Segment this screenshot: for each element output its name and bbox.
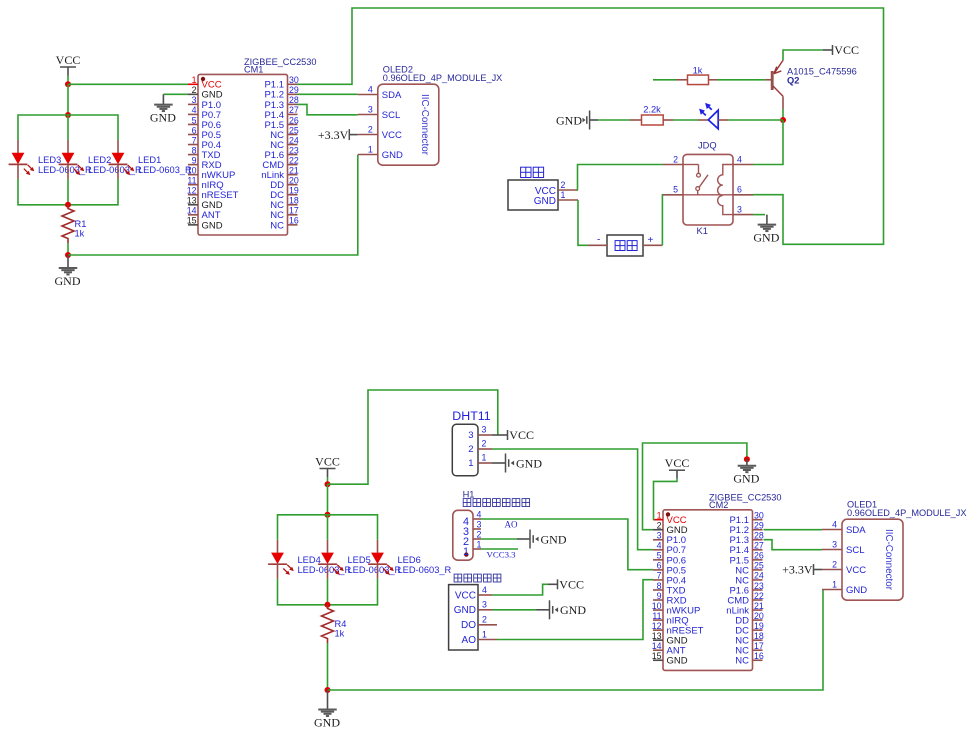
pin 12 nRESET	[188, 194, 198, 196]
relay switch contacts	[683, 165, 733, 195]
svg-text:GND: GND	[560, 603, 586, 617]
pin 19 DC	[753, 629, 763, 631]
svg-text:12: 12	[187, 186, 197, 196]
svg-text:8: 8	[192, 145, 197, 155]
resistor R4	[322, 605, 334, 643]
pin 28 P1.3	[288, 103, 298, 105]
wire relay pin3 to ground	[753, 214, 765, 216]
relay pin 4	[733, 164, 753, 166]
pin 3 P1.0	[653, 539, 663, 541]
led LED2	[59, 140, 85, 179]
pin 1 GND	[822, 589, 842, 591]
wire collector to relay pin4	[753, 120, 783, 165]
svg-text:21: 21	[289, 165, 299, 175]
pin 16 NC	[288, 224, 298, 226]
svg-text:1: 1	[561, 190, 566, 200]
svg-text:10: 10	[652, 601, 662, 611]
sensor rain body	[449, 585, 478, 650]
svg-text:4: 4	[477, 509, 482, 519]
svg-text:18: 18	[754, 631, 764, 641]
wire rain GND	[492, 609, 537, 611]
led LED4	[268, 540, 294, 579]
wire VCC node down to LED bus	[327, 484, 329, 515]
svg-text:6: 6	[737, 185, 742, 195]
svg-text:23: 23	[289, 145, 299, 155]
resistor 1k body	[688, 75, 709, 85]
pin 17 NC	[753, 649, 763, 651]
wire CM2 pin2 GND loop	[643, 443, 747, 530]
pin 8 TXD	[188, 154, 198, 156]
svg-text:+: +	[648, 235, 654, 246]
svg-text:7: 7	[192, 135, 197, 145]
svg-text:CM1: CM1	[244, 65, 263, 75]
svg-text:13: 13	[652, 631, 662, 641]
svg-text:2: 2	[468, 444, 473, 455]
pin 1 GND	[358, 154, 378, 156]
svg-text:CM2: CM2	[709, 500, 728, 510]
wire H1 pin4 (AO) to CM2 P0.5	[481, 519, 653, 570]
pin 1 VCC	[653, 519, 663, 521]
pin 30 P1.1	[288, 83, 298, 85]
pin 13 GND	[188, 204, 198, 206]
svg-text:0.96OLED_4P_MODULE_JX: 0.96OLED_4P_MODULE_JX	[383, 73, 503, 83]
wire LED anode bus	[18, 115, 118, 140]
svg-text:NC: NC	[735, 656, 749, 667]
svg-text:AO: AO	[462, 635, 477, 646]
pin 25 NC	[288, 134, 298, 136]
pin 6 P0.5	[188, 134, 198, 136]
pin 26 P1.5	[753, 559, 763, 561]
power flag VCC (CM2)	[665, 456, 690, 479]
relay coil	[718, 165, 733, 215]
svg-text:GND: GND	[846, 585, 867, 596]
wire R4 to gnd node	[327, 643, 329, 690]
ground flag at H1 pin2	[517, 530, 567, 549]
pin 2 VCC	[358, 134, 378, 136]
svg-text:2: 2	[482, 439, 487, 449]
svg-text:SDA: SDA	[846, 525, 866, 536]
wire bottom rail to OLED1 GND	[328, 590, 824, 691]
svg-text:VCC: VCC	[56, 53, 81, 67]
svg-text:0.96OLED_4P_MODULE_JX: 0.96OLED_4P_MODULE_JX	[847, 508, 967, 518]
wire P1.3 to OLED2 SCL	[298, 104, 358, 114]
ground symbol above CM2	[733, 459, 759, 485]
svg-text:30: 30	[289, 75, 299, 85]
ground symbol at CM1 pin2	[150, 94, 176, 124]
led LED3	[9, 140, 35, 179]
svg-text:GND: GND	[382, 150, 403, 161]
pin 18 NC	[288, 204, 298, 206]
svg-text:GND: GND	[556, 113, 582, 127]
resistor R1	[62, 205, 74, 243]
svg-text:1: 1	[192, 75, 197, 85]
svg-text:13: 13	[187, 196, 197, 206]
wire LED anode bus bottom	[278, 515, 378, 540]
pin 24 NC	[288, 144, 298, 146]
pin 3 SCL	[822, 549, 842, 551]
pin 12 nRESET	[653, 629, 663, 631]
node LED bus junction	[65, 112, 71, 118]
pin 14 ANT	[188, 214, 198, 216]
pin 6 P0.5	[653, 569, 663, 571]
pin 8 TXD	[653, 589, 663, 591]
svg-text:GND: GND	[534, 196, 556, 207]
svg-text:2.2k: 2.2k	[643, 105, 661, 115]
sensor H1 body	[453, 510, 473, 560]
svg-text:1: 1	[477, 539, 482, 549]
pin 19 DC	[288, 194, 298, 196]
svg-text:K1: K1	[697, 226, 708, 236]
svg-text:16: 16	[754, 651, 764, 661]
wire LED cathode bus bottom	[278, 579, 378, 605]
svg-text:14: 14	[652, 641, 662, 651]
pin 16 NC	[753, 659, 763, 661]
svg-text:1: 1	[832, 580, 837, 590]
svg-text:VCC: VCC	[509, 428, 534, 442]
svg-text:GND: GND	[454, 605, 476, 616]
svg-text:9: 9	[657, 591, 662, 601]
wire P1.2 to OLED2 SDA	[298, 93, 358, 95]
svg-text:AO: AO	[505, 520, 518, 530]
wire CM1 pin2 to ground	[163, 93, 188, 95]
svg-text:GND: GND	[753, 230, 779, 244]
svg-text:2: 2	[673, 154, 678, 164]
ground flag at DHT11 pin1	[492, 454, 542, 473]
wire Q2 collector down	[782, 109, 784, 120]
svg-text:1: 1	[463, 546, 469, 558]
pin 2 GND	[653, 529, 663, 531]
ic CM2 ZIGBEE_CC2530	[652, 493, 782, 671]
wire pump VCC to relay pin2	[578, 165, 664, 191]
chip CM1 pin1 dot	[201, 77, 205, 81]
chip CM2 body	[663, 510, 753, 671]
svg-text:VCC: VCC	[665, 456, 690, 470]
svg-text:3: 3	[482, 425, 487, 435]
pin 1 VCC	[188, 83, 198, 85]
power flag VCC at rain pin4	[548, 578, 584, 592]
wire gnd node to OLED2 GND	[68, 155, 358, 255]
svg-text:SDA: SDA	[382, 90, 402, 101]
pin 3 SCL	[358, 114, 378, 116]
node collector junction	[780, 117, 786, 123]
svg-text:IIC-Connector: IIC-Connector	[883, 529, 894, 591]
svg-text:LED-0603_R: LED-0603_R	[88, 165, 142, 175]
svg-text:1: 1	[482, 629, 487, 639]
pin 25 NC	[753, 569, 763, 571]
power flag VCC (Q2)	[823, 43, 859, 57]
pin 2 VCC	[822, 569, 842, 571]
svg-text:NC: NC	[270, 220, 284, 231]
svg-text:LED3: LED3	[38, 155, 61, 165]
pin 11 nIRQ	[188, 184, 198, 186]
svg-text:1: 1	[482, 453, 487, 463]
svg-text:+3.3V: +3.3V	[318, 128, 349, 142]
svg-text:LED-0603_R: LED-0603_R	[398, 565, 452, 575]
svg-text:1: 1	[368, 145, 373, 155]
svg-text:27: 27	[289, 105, 299, 115]
svg-text:VCC: VCC	[315, 455, 340, 469]
wire 2.2k to LED7	[663, 119, 673, 121]
svg-text:1: 1	[657, 511, 662, 521]
pin 5 P0.6	[188, 123, 198, 125]
svg-text:17: 17	[289, 206, 299, 216]
svg-text:10: 10	[187, 165, 197, 175]
wire 1k to Q2 base	[709, 79, 718, 81]
pin 22 CMD	[753, 599, 763, 601]
pin 29 P1.2	[288, 93, 298, 95]
svg-text:LED6: LED6	[398, 555, 421, 565]
pin 10 nWKUP	[653, 609, 663, 611]
battery minus lead	[588, 244, 607, 246]
node VCC junction bottom	[325, 481, 331, 487]
wire Q2 emitter to VCC	[783, 50, 823, 60]
svg-text:VCC: VCC	[846, 565, 866, 576]
ground symbol below R4	[314, 690, 340, 729]
svg-text:26: 26	[289, 115, 299, 125]
svg-text:JDQ: JDQ	[698, 141, 717, 151]
relay pin 5	[663, 194, 683, 196]
power flag VCC (bottom-left)	[315, 455, 340, 478]
svg-text:22: 22	[289, 155, 299, 165]
svg-text:VCC: VCC	[559, 578, 584, 592]
ground symbol at relay pin3	[753, 215, 779, 245]
svg-text:R4: R4	[335, 619, 347, 629]
node R1 bottom junction	[65, 252, 71, 258]
svg-text:2: 2	[561, 180, 566, 190]
wire gnd to 2.2k	[598, 119, 630, 121]
svg-text:16: 16	[289, 216, 299, 226]
wire rain AO to CM2 P0.4	[497, 580, 653, 640]
pin 5 P0.6	[653, 559, 663, 561]
led LED7 (blue indicator)	[698, 103, 728, 129]
pin 7 P0.4	[188, 144, 198, 146]
pin 20 DD	[288, 184, 298, 186]
svg-text:SCL: SCL	[382, 110, 400, 121]
svg-text:25: 25	[754, 561, 764, 571]
power flag VCC at DHT11 pin3	[492, 428, 534, 442]
svg-text:GND: GND	[314, 715, 340, 729]
ground flag (2.2k)	[556, 111, 598, 130]
connector OLED1 body	[842, 519, 903, 600]
svg-text:30: 30	[754, 511, 764, 521]
svg-text:LED-0603_R: LED-0603_R	[298, 565, 352, 575]
svg-text:IIC-Connector: IIC-Connector	[419, 94, 430, 156]
pin 15 GND	[188, 224, 198, 226]
svg-text:3: 3	[832, 540, 837, 550]
svg-text:LED-0603_R: LED-0603_R	[38, 165, 92, 175]
svg-text:LED5: LED5	[348, 555, 371, 565]
svg-text:DO: DO	[461, 620, 476, 631]
svg-text:19: 19	[289, 186, 299, 196]
power flag VCC (top-left)	[56, 53, 81, 76]
pin 20 DD	[753, 619, 763, 621]
svg-text:22: 22	[754, 591, 764, 601]
svg-text:GND: GND	[516, 456, 542, 470]
pin 21 nLink	[753, 609, 763, 611]
svg-text:2: 2	[482, 615, 487, 625]
svg-text:4: 4	[192, 105, 197, 115]
label water-pump (CJK)	[521, 167, 531, 177]
pin 26 P1.5	[288, 123, 298, 125]
svg-text:7: 7	[657, 571, 662, 581]
pin 2 GND	[188, 93, 198, 95]
svg-text:+3.3V: +3.3V	[782, 563, 813, 577]
node cathode bus junction	[65, 202, 71, 208]
label battery (CJK)	[615, 241, 625, 251]
svg-text:3: 3	[477, 519, 482, 529]
svg-text:15: 15	[187, 216, 197, 226]
pin 29 P1.2	[753, 529, 763, 531]
block battery body	[607, 235, 643, 256]
wire DHT11 pin2 to CM2 P0.7	[492, 449, 653, 550]
node GND junction (CM2)	[744, 456, 750, 462]
svg-text:3: 3	[468, 430, 473, 441]
pin 9 RXD	[653, 599, 663, 601]
svg-text:5: 5	[192, 115, 197, 125]
battery plus lead	[643, 244, 662, 246]
svg-text:3: 3	[737, 204, 742, 214]
connector OLED2 body	[378, 84, 439, 165]
svg-text:17: 17	[754, 641, 764, 651]
wire pump GND to battery minus	[578, 200, 588, 245]
svg-text:GND: GND	[667, 656, 688, 667]
ground symbol below R1	[55, 255, 81, 288]
svg-text:29: 29	[289, 85, 299, 95]
svg-text:2: 2	[368, 125, 373, 135]
svg-text:LED-0603_R: LED-0603_R	[348, 565, 402, 575]
svg-text:LED-0603_R: LED-0603_R	[138, 165, 192, 175]
wire LED7 to collector node	[728, 119, 783, 121]
pin 3 P1.0	[188, 103, 198, 105]
svg-text:27: 27	[754, 541, 764, 551]
wire VCC to node	[327, 477, 329, 484]
svg-text:VCC3.3: VCC3.3	[487, 550, 517, 560]
wire rain VCC up to flag	[492, 584, 548, 595]
svg-text:15: 15	[652, 651, 662, 661]
svg-text:DHT11: DHT11	[452, 409, 490, 423]
connector OLED2	[358, 65, 503, 166]
svg-text:3: 3	[482, 600, 487, 610]
node VCC/pin1 junction	[65, 81, 71, 87]
relay K1 JDQ body	[683, 154, 733, 225]
pin 4 P0.7	[653, 549, 663, 551]
pin 30 P1.1	[753, 519, 763, 521]
svg-text:23: 23	[754, 581, 764, 591]
connector OLED1	[822, 500, 967, 601]
wire R1 to gnd node	[67, 243, 69, 255]
svg-text:VCC: VCC	[834, 43, 859, 57]
svg-text:25: 25	[289, 125, 299, 135]
resistor R 1k (base) lead	[653, 79, 676, 81]
svg-text:21: 21	[754, 601, 764, 611]
pin 4 P0.7	[188, 113, 198, 115]
sensor rain title (CJK)	[454, 574, 462, 582]
svg-text:24: 24	[754, 571, 764, 581]
svg-text:20: 20	[289, 176, 299, 186]
wire VCC to node	[67, 76, 69, 85]
svg-text:6: 6	[657, 561, 662, 571]
pin 11 nIRQ	[653, 619, 663, 621]
svg-text:3: 3	[192, 95, 197, 105]
node cathode junction bottom	[325, 602, 331, 608]
svg-text:GND: GND	[733, 472, 759, 486]
relay pin 3	[733, 214, 753, 216]
resistor 2.2k body	[642, 115, 664, 125]
sensor DHT11 body	[452, 424, 478, 476]
wire H1 pin1 (VCC3.3)	[481, 548, 518, 550]
svg-text:1k: 1k	[335, 629, 345, 639]
svg-text:GND: GND	[541, 532, 567, 546]
svg-text:VCC: VCC	[455, 590, 476, 601]
svg-text:6: 6	[192, 125, 197, 135]
wire VCC node to CM1 pin1	[68, 83, 188, 85]
svg-text:GND: GND	[202, 220, 223, 231]
svg-text:5: 5	[673, 185, 678, 195]
svg-text:4: 4	[737, 154, 742, 164]
wire CM2 P1.2 to OLED1 SDA	[764, 529, 823, 531]
pin 4 SDA	[822, 529, 842, 531]
pin 22 CMD	[288, 164, 298, 166]
svg-text:SCL: SCL	[846, 545, 864, 556]
svg-text:19: 19	[754, 621, 764, 631]
svg-text:3: 3	[657, 531, 662, 541]
svg-text:4: 4	[657, 541, 662, 551]
pin 13 GND	[653, 639, 663, 641]
led LED1	[109, 140, 135, 179]
svg-text:4: 4	[482, 585, 487, 595]
relay pin 6	[733, 194, 753, 196]
svg-text:4: 4	[832, 520, 837, 530]
svg-text:VCC: VCC	[382, 130, 402, 141]
pin 9 RXD	[188, 164, 198, 166]
relay pin 2	[663, 164, 683, 166]
svg-text:24: 24	[289, 135, 299, 145]
svg-text:9: 9	[192, 155, 197, 165]
svg-text:Q2: Q2	[787, 76, 799, 86]
svg-text:28: 28	[754, 531, 764, 541]
ic U CM1 ZIGBEE_CC2530	[187, 57, 317, 235]
svg-text:29: 29	[754, 521, 764, 531]
pin 28 P1.3	[753, 539, 763, 541]
pin 27 P1.4	[753, 549, 763, 551]
pin 10 nWKUP	[188, 174, 198, 176]
svg-text:2: 2	[192, 85, 197, 95]
svg-text:11: 11	[652, 611, 661, 621]
chip CM2 pin1 dot	[666, 512, 670, 516]
wire H1 pin2 to ground	[481, 538, 517, 540]
transistor Q2 A1015	[765, 60, 783, 109]
wire P1.1 to relay pin6 (top loop)	[298, 8, 884, 244]
pin 21 nLink	[288, 174, 298, 176]
svg-text:3: 3	[368, 105, 373, 115]
pin 27 P1.4	[288, 113, 298, 115]
svg-text:8: 8	[657, 581, 662, 591]
pin 17 NC	[288, 214, 298, 216]
chip CM1 body	[198, 74, 288, 235]
wire VCC node down to LED bus	[67, 84, 69, 115]
pin 14 ANT	[653, 649, 663, 651]
svg-text:2: 2	[832, 560, 837, 570]
svg-text:5: 5	[657, 551, 662, 561]
svg-text:H1: H1	[463, 490, 475, 500]
ground flag at rain pin3	[537, 600, 587, 619]
pin 23 P1.6	[753, 589, 763, 591]
pin 18 NC	[753, 639, 763, 641]
svg-text:-: -	[597, 235, 600, 246]
svg-text:LED1: LED1	[138, 155, 161, 165]
svg-text:LED2: LED2	[88, 155, 111, 165]
svg-text:2: 2	[657, 521, 662, 531]
